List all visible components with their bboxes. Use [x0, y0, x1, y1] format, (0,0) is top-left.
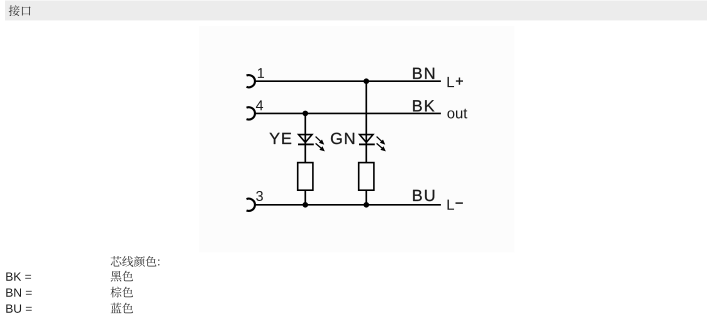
pin number 1	[258, 68, 264, 78]
legend heading 芯线颜色 (core colours)	[111, 256, 160, 267]
terminal label out	[447, 109, 467, 119]
label YE	[270, 133, 292, 144]
terminal label L+	[448, 77, 455, 87]
diagram panel	[199, 26, 514, 253]
legend 蓝色 (blue)	[111, 303, 133, 313]
pin number 3	[256, 191, 263, 201]
LED YE (yellow indicator) D1 light arrows	[316, 137, 324, 151]
connector pin 4 contact	[247, 107, 255, 119]
wire colour label BU	[413, 190, 434, 201]
branch wire GN (from L+ rail down across out rail through LED to resistor and L- rail)	[365, 81, 367, 205]
junction on L- rail (YE branch)	[303, 202, 309, 208]
legend 棕色 (brown)	[111, 287, 133, 298]
LED GN (green indicator) D2	[359, 135, 375, 145]
header bar	[5, 1, 707, 21]
legend BK =	[6, 272, 31, 280]
wire colour label BK	[413, 100, 434, 111]
branch wire YE (from out rail down through LED to resistor and L- rail)	[304, 113, 306, 204]
legend BU =	[6, 304, 31, 312]
title 接口 (interface)	[9, 5, 31, 16]
label GN	[331, 133, 354, 144]
wire L- rail (pin3 to BU/L-)	[254, 204, 441, 206]
legend 黑色 (black)	[111, 271, 133, 282]
LED YE (yellow indicator) D1	[298, 135, 314, 145]
junction on L+ rail (GN branch)	[364, 78, 370, 84]
pin number 4	[256, 100, 263, 110]
wire out rail (pin4 to BK/out)	[254, 112, 441, 114]
resistor R2 (GN branch)	[359, 163, 374, 191]
legend BN =	[6, 288, 31, 296]
LED GN (green indicator) D2 light arrows	[377, 137, 385, 151]
connector pin 1 contact	[247, 75, 255, 87]
junction on out rail (YE branch)	[303, 111, 309, 117]
resistor R1 (YE branch)	[298, 163, 313, 191]
junction on L- rail (GN branch)	[364, 202, 370, 208]
wire L+ rail (pin1 to BN/L+)	[254, 80, 441, 82]
connector pin 3 contact	[247, 199, 255, 211]
wire colour label BN	[413, 68, 434, 79]
terminal label L-	[448, 200, 455, 210]
